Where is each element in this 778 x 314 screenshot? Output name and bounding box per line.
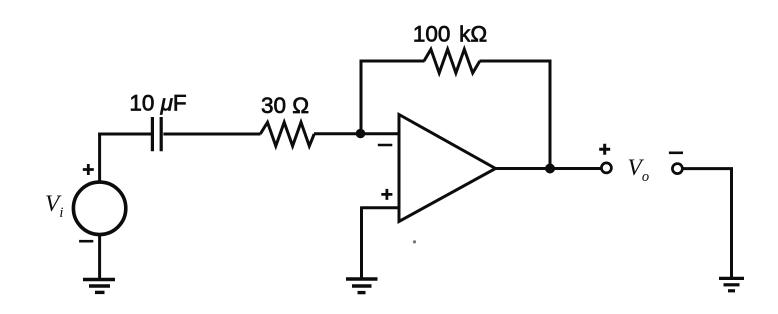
svg-text:30 Ω: 30 Ω [261, 93, 309, 118]
wire resistor to op-amp inverting input [314, 132, 399, 135]
capacitor C1 10 uF [152, 117, 161, 151]
op-amp non-inverting input label + [381, 189, 392, 200]
wire capacitor to resistor [163, 133, 260, 136]
svg-text:Vi: Vi [45, 191, 63, 221]
voltage source Vi [73, 182, 125, 234]
wire return terminal to right corner and down [684, 167, 732, 278]
svg-text:10 μF: 10 μF [129, 90, 186, 115]
wire source top lead up to corner [98, 133, 101, 183]
+ polarity mark of source [83, 164, 94, 175]
node A inverting input junction [356, 129, 366, 139]
ground at right return [719, 278, 744, 290]
return terminal - open circle [672, 164, 682, 174]
resistor R1 30 ohm [260, 122, 314, 146]
resistor R2 100 kohm [424, 49, 480, 73]
wire source bottom lead [98, 234, 101, 279]
svg-text:Vo: Vo [628, 155, 650, 185]
ground at op-amp non-inverting input [346, 279, 378, 293]
wire feedback top left segment [360, 60, 425, 63]
op-amp U1 [399, 115, 496, 222]
op-amp inverting input label - [378, 144, 393, 147]
wire feedback top right segment [480, 60, 552, 63]
output terminal + open circle [601, 163, 611, 173]
wire from corner to capacitor [98, 133, 151, 136]
- polarity mark of source [79, 240, 93, 243]
svg-text:100 kΩ: 100 kΩ [413, 21, 487, 46]
node B output junction [545, 164, 555, 174]
wire feedback right vertical [549, 60, 552, 169]
- label at return terminal [669, 152, 683, 155]
+ label at output terminal [599, 144, 610, 155]
wire feedback left vertical [360, 60, 363, 134]
wire op-amp output [494, 167, 601, 170]
ground below source [83, 280, 115, 293]
wire non-inverting input to ground [362, 206, 400, 279]
